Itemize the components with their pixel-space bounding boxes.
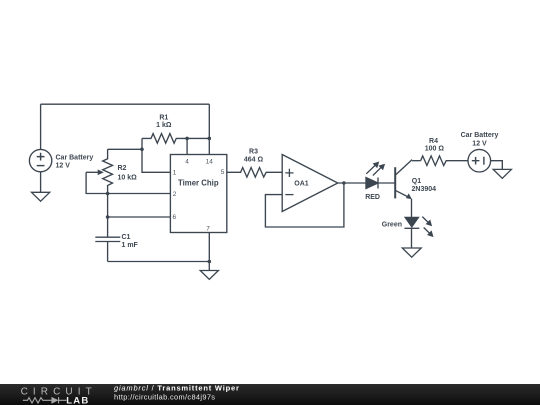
resistor R1 (142, 134, 187, 144)
ground G2 (200, 271, 218, 280)
svg-text:OA1: OA1 (294, 181, 309, 188)
svg-text:10 kΩ: 10 kΩ (118, 174, 138, 181)
svg-text:5: 5 (221, 169, 225, 176)
svg-text:7: 7 (206, 225, 210, 232)
wire LED D1 to Q1 base (378, 182, 395, 184)
voltage source V2 Car Battery (right) (468, 149, 491, 172)
svg-text:100 Ω: 100 Ω (425, 145, 445, 152)
svg-text:http://circuitlab.com/c84j97s: http://circuitlab.com/c84j97s (114, 393, 215, 402)
capacitor C1 (95, 237, 120, 261)
junction R1 right / pin 4 (185, 137, 189, 141)
LED D2 light arrows (422, 217, 433, 238)
label R3 464 Ohm (244, 149, 264, 164)
resistor R3 (227, 168, 282, 178)
wire top rail (41, 103, 210, 105)
logo squiggle resistor and diode (23, 397, 67, 403)
svg-text:R1: R1 (159, 115, 168, 122)
wire Q1 emitter to LED D2 (411, 199, 413, 218)
label R4 100 Ohm (425, 138, 445, 153)
junction R2 bottom (106, 192, 110, 196)
svg-text:RED: RED (365, 194, 380, 201)
svg-text:14: 14 (206, 159, 214, 166)
wire top rail down to pin 14 (208, 104, 210, 154)
svg-text:Car Battery: Car Battery (56, 154, 94, 161)
svg-text:giambrcl / Transmittent Wiper: giambrcl / Transmittent Wiper (114, 384, 240, 393)
svg-text:C1: C1 (122, 234, 131, 241)
wire R2 bottom down to C1 (107, 194, 109, 238)
label R2 10 kOhm (118, 165, 138, 181)
LED D2 Green (405, 217, 420, 228)
junction R2 top wire (140, 148, 144, 152)
junction pin 6 tap (106, 215, 110, 219)
wire feedback loop (265, 183, 344, 227)
wire pin 7 stub (208, 233, 210, 262)
label R1 1 kOhm (156, 115, 172, 129)
label C1 1 mF (122, 234, 139, 249)
wire pin 6 (108, 216, 171, 218)
wire op-amp output (338, 182, 366, 184)
svg-text:Timer Chip: Timer Chip (178, 178, 219, 187)
footer bar (0, 384, 540, 405)
wire collector to R4 (412, 160, 421, 162)
junction C1 rail / ground (208, 260, 212, 264)
IC U1 Timer Chip (170, 155, 226, 233)
wire R1 left down to pin 1 (142, 138, 170, 172)
junction op-amp output (342, 181, 345, 184)
label Q1 2N3904 (412, 178, 437, 193)
svg-text:Q1: Q1 (412, 178, 421, 185)
wire pin 2 (108, 193, 171, 195)
wire R2 top (108, 148, 142, 150)
svg-text:6: 6 (172, 214, 176, 221)
wire R2 wiper return loop (86, 172, 108, 193)
logo diode triangle (51, 397, 58, 404)
transistor Q1 2N3904 (395, 160, 412, 199)
ground G4 (493, 169, 511, 178)
emitter arrowhead Q1 (406, 193, 412, 199)
junction top rail / pin 14 (208, 137, 212, 141)
voltage source V1 Car Battery (left) (29, 149, 51, 171)
svg-text:1 kΩ: 1 kΩ (156, 122, 172, 129)
svg-text:12 V: 12 V (472, 141, 487, 148)
svg-text:1 mF: 1 mF (122, 242, 139, 249)
wire V2 to ground G4 (491, 161, 503, 170)
ground G1 (32, 192, 50, 201)
wiper arrowhead R2 (98, 170, 104, 176)
wire pin 4 stub (186, 138, 188, 154)
LED D1 RED (366, 178, 378, 189)
wire battery V1 bottom lead (40, 172, 42, 193)
LED D1 light arrows (366, 162, 385, 176)
wire to ground G2 (208, 262, 210, 271)
wire LED D2 to ground G3 (411, 228, 413, 248)
wire R1 right to pin14 column (187, 137, 209, 139)
op-amp OA1 (282, 155, 338, 212)
wire battery V1 top lead to top rail (40, 104, 42, 149)
label V2 Car Battery 12 V (461, 132, 499, 147)
label V1 Car Battery 12 V (56, 154, 94, 169)
wire C1 bottom rail to pin 7 (108, 261, 210, 263)
svg-text:464 Ω: 464 Ω (244, 157, 264, 164)
svg-text:R4: R4 (429, 138, 438, 145)
svg-text:1: 1 (173, 169, 177, 176)
ground G3 (402, 248, 421, 257)
svg-text:Car Battery: Car Battery (461, 132, 499, 139)
svg-text:R2: R2 (118, 165, 127, 172)
potentiometer R2 (86, 149, 112, 193)
svg-text:12 V: 12 V (56, 162, 71, 169)
svg-text:Green: Green (382, 221, 402, 228)
svg-text:LAB: LAB (66, 395, 89, 405)
svg-text:4: 4 (185, 159, 189, 166)
resistor R4 (421, 156, 468, 166)
svg-text:2N3904: 2N3904 (412, 186, 437, 193)
svg-text:2: 2 (173, 191, 177, 198)
svg-text:R3: R3 (249, 149, 258, 156)
